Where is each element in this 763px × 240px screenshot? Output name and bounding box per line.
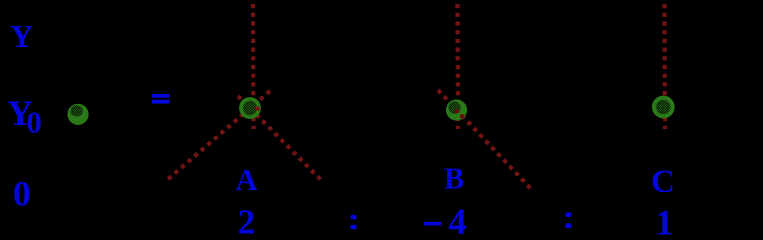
svg-text:Y: Y <box>10 18 33 54</box>
node B circle <box>446 99 467 120</box>
colon separator 1 <box>351 215 357 229</box>
dotted ray vertical through node C <box>662 4 667 129</box>
svg-text:0: 0 <box>26 105 42 140</box>
svg-text:2: 2 <box>238 203 256 239</box>
node A circle <box>239 97 261 119</box>
svg-text:1: 1 <box>655 203 673 240</box>
colon separator 2 <box>565 212 571 228</box>
dotted ray vertical through node A <box>251 4 256 129</box>
dotted ray down-left through node A <box>166 91 270 181</box>
dotted ray vertical through node B <box>455 4 460 129</box>
marker circle at Y0 level (left) <box>67 104 88 125</box>
ray dot overlapping node A circle edge <box>256 107 260 111</box>
node C circle <box>652 96 675 119</box>
svg-text:C: C <box>651 164 675 200</box>
svg-text:4: 4 <box>448 201 466 239</box>
svg-text:A: A <box>236 163 258 197</box>
minus sign of -4 <box>424 222 441 226</box>
dotted ray down-right through node A <box>238 96 323 182</box>
equals sign <box>152 94 169 104</box>
svg-text:0: 0 <box>13 174 31 214</box>
dotted ray down-right through node B <box>438 90 532 190</box>
ray dots overlapping node B circle <box>455 109 459 113</box>
svg-text:B: B <box>444 162 464 196</box>
